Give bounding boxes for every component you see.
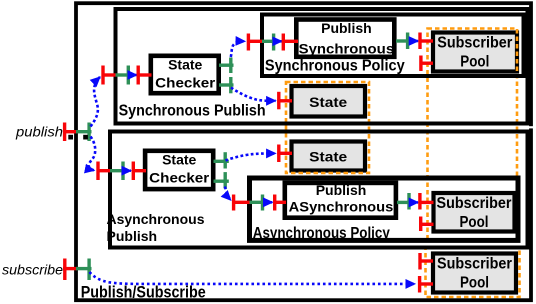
connector into Synchronous Policy: green cap	[262, 34, 276, 51]
svg-text:Pool: Pool	[460, 214, 489, 231]
box Subscriber Pool (bottom)	[433, 254, 516, 293]
svg-text:ASynchronous: ASynchronous	[289, 198, 394, 214]
connector into async State Checker: green cap	[110, 162, 126, 181]
svg-text:Synchronous Policy: Synchronous Policy	[265, 57, 405, 74]
svg-text:Subscriber: Subscriber	[437, 255, 512, 272]
svg-text:Synchronous: Synchronous	[299, 40, 395, 56]
svg-text:Publish: Publish	[107, 228, 158, 244]
orange dashed frame around State boxes	[286, 82, 369, 173]
svg-text:State: State	[309, 94, 347, 110]
box State (asynchronous)	[292, 142, 366, 171]
svg-text:Publish: Publish	[321, 20, 372, 36]
box Publish Synchronous	[296, 20, 394, 57]
orange dashed frame around bottom Subscriber Pool	[426, 247, 520, 297]
async Subscriber Pool upper red port	[419, 193, 434, 210]
binding arrow green to red (async SC)	[126, 169, 132, 172]
connector into sync State Checker: outer red port	[102, 66, 116, 85]
connector into Synchronous Policy: red outer cap	[247, 34, 262, 51]
port subscribe: green inner cap	[76, 259, 92, 281]
box State Checker (asynchronous)	[145, 151, 213, 189]
svg-text:Checker: Checker	[149, 170, 210, 186]
svg-text:Checker: Checker	[155, 75, 216, 91]
binding arrow to sync Subscriber Pool	[412, 40, 419, 43]
component box Asynchronous Publish	[110, 132, 528, 248]
async State Checker left red port	[132, 162, 146, 181]
async State Checker right green port (bottom)	[214, 172, 229, 188]
port publish: red outer cap	[63, 123, 77, 142]
sync State left red port	[277, 92, 292, 110]
Publish ASynchronous right green port	[397, 193, 412, 210]
svg-text:Subscriber: Subscriber	[437, 195, 512, 212]
svg-text:Publish: Publish	[316, 182, 367, 198]
Publish ASynchronous left red port	[274, 195, 287, 211]
Publish Synchronous right green port	[396, 33, 411, 50]
bottom Subscriber Pool lower red port	[419, 276, 434, 293]
white notch artifact on right border	[526, 126, 536, 128]
box State (synchronous)	[292, 86, 366, 117]
orange dashed tall frame around sync and async Subscriber Pools	[428, 29, 518, 240]
box Subscriber Pool (asynchronous)	[434, 193, 515, 232]
binding wire sync State Checker to Synchronous Policy connector	[231, 41, 245, 57]
connector into Asynchronous Policy: red outer cap	[232, 195, 250, 211]
Publish Synchronous left red port	[282, 34, 298, 51]
connector into async State Checker: outer red port	[97, 162, 111, 181]
connector into sync State Checker: green cap	[116, 66, 132, 85]
svg-text:Pool: Pool	[460, 54, 489, 71]
box State Checker (synchronous)	[151, 56, 219, 93]
publish connector dots	[68, 135, 73, 140]
sync Subscriber Pool upper red port	[419, 33, 433, 50]
svg-text:State: State	[162, 152, 196, 168]
binding arrow green to red (sync SC)	[131, 74, 137, 77]
svg-text:Subscriber: Subscriber	[437, 35, 512, 52]
sync Subscriber Pool lower red port	[420, 56, 434, 72]
sync State Checker right green port (top)	[219, 58, 234, 74]
svg-text:publish: publish	[15, 123, 63, 139]
port subscribe: red outer cap	[63, 259, 77, 281]
binding wire publish to sync connector	[91, 77, 101, 127]
async Subscriber Pool lower red port	[420, 217, 434, 232]
svg-text:State: State	[168, 57, 202, 73]
svg-text:State: State	[309, 149, 347, 165]
binding wire subscribe to bottom Subscriber Pool	[90, 272, 416, 284]
port publish: green inner cap	[76, 123, 92, 142]
bottom Subscriber Pool upper red port	[419, 253, 433, 270]
component box Synchronous Policy	[262, 15, 524, 77]
binding arrow green to red (Publish Synchronous)	[276, 40, 282, 43]
svg-text:Pool: Pool	[460, 274, 489, 291]
sync State Checker right green port (bottom)	[219, 77, 234, 93]
svg-text:Asynchronous Policy: Asynchronous Policy	[253, 225, 390, 242]
svg-text:Asynchronous: Asynchronous	[107, 211, 205, 227]
binding arrow to async Subscriber Pool	[413, 201, 419, 204]
binding wire async State Checker to Asynchronous Policy connector	[225, 187, 231, 201]
async State left red port	[277, 145, 292, 163]
binding wire sync State Checker to State	[231, 88, 276, 101]
binding wire async State Checker to State	[226, 153, 276, 160]
component box Asynchronous Policy	[250, 178, 519, 240]
binding wire publish to async connector	[89, 137, 95, 171]
binding arrow green to red (Publish ASynchronous)	[265, 201, 273, 204]
component box Synchronous Publish	[116, 9, 528, 124]
connector into Asynchronous Policy: green cap	[250, 195, 266, 211]
async State Checker right green port (top)	[214, 152, 229, 168]
box Publish ASynchronous	[285, 183, 396, 218]
svg-text:subscribe: subscribe	[2, 262, 63, 278]
svg-text:Synchronous Publish: Synchronous Publish	[119, 102, 266, 119]
sync State Checker left red port	[137, 66, 152, 85]
box Subscriber Pool (synchronous)	[433, 33, 517, 72]
